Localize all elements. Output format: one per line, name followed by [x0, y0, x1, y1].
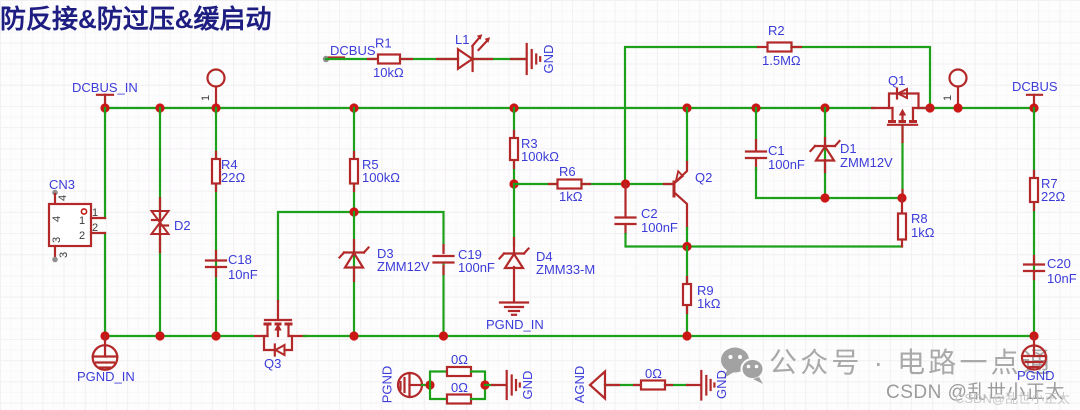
resistor R6 [558, 164, 583, 204]
svg-text:Q2: Q2 [695, 170, 712, 185]
node AGND (triangle symbol) [572, 366, 605, 404]
ground PGND (right circle symbol) [1017, 336, 1055, 383]
wire R3 column [513, 108, 515, 184]
svg-text:1kΩ: 1kΩ [911, 225, 935, 240]
transistor Q3 (NMOS on bottom bus) [251, 301, 306, 371]
svg-text:C18: C18 [228, 252, 252, 267]
wire C1 bottom row y=198 [756, 168, 902, 198]
resistor R3 [510, 136, 559, 164]
svg-text:10nF: 10nF [1047, 271, 1077, 286]
svg-text:AGND: AGND [572, 366, 587, 404]
svg-text:PGND_IN: PGND_IN [77, 369, 135, 384]
capacitor C20 [1024, 256, 1077, 286]
node R3/R6/D4 [509, 179, 518, 188]
svg-text:Q3: Q3 [264, 356, 281, 371]
svg-text:100nF: 100nF [641, 220, 678, 235]
node D1 bottom [820, 193, 829, 202]
node R6/C2/R2 junction [621, 179, 630, 188]
svg-text:DCBUS: DCBUS [330, 43, 376, 58]
capacitor C2 [616, 184, 678, 235]
wire R6 to Q2 base [582, 183, 673, 185]
capacitor C18 [206, 252, 258, 282]
LED L1 [455, 32, 490, 71]
pin 1 circle (right) [942, 70, 967, 109]
resistor 0R top branch [430, 352, 485, 385]
ground GND (bottom mid-left rotated) [507, 371, 535, 400]
svg-text:DCBUS_IN: DCBUS_IN [72, 80, 138, 95]
wire R2 branch left [625, 47, 768, 184]
resistor R1 [373, 36, 404, 81]
svg-text:DCBUS: DCBUS [1012, 79, 1058, 94]
wire D3 column [353, 212, 355, 336]
svg-text:Q1: Q1 [888, 73, 905, 88]
resistor R5 [350, 157, 400, 185]
svg-text:1: 1 [200, 95, 212, 101]
svg-text:100kΩ: 100kΩ [521, 149, 559, 164]
svg-text:ZMM12V: ZMM12V [840, 155, 893, 170]
svg-text:GND: GND [541, 45, 556, 74]
svg-text:4: 4 [57, 195, 69, 201]
wire R1 to L1 [400, 58, 458, 60]
wire DCBUS to R1 [326, 58, 378, 60]
capacitor C1 [746, 108, 805, 172]
capacitor C19 [434, 245, 495, 336]
ground PGND_IN (mid earth symbol) [486, 303, 544, 333]
resistor 0R (AGND) [641, 366, 665, 390]
svg-text:ZMM12V: ZMM12V [377, 259, 430, 274]
resistor R9 [683, 247, 721, 337]
ground PGND_IN (left circle symbol) [77, 336, 135, 384]
node DCBUS (top LED branch) [323, 43, 376, 62]
junction dots on main bus [100, 103, 1038, 112]
svg-text:R8: R8 [911, 211, 928, 226]
svg-text:100nF: 100nF [768, 157, 805, 172]
svg-text:2: 2 [92, 222, 98, 234]
resistor R7 [1030, 176, 1065, 204]
svg-text:GND: GND [520, 371, 535, 400]
transistor Q1 (PMOS on main bus) [872, 73, 930, 125]
resistor R4 [212, 157, 245, 185]
svg-text:PGND: PGND [1017, 368, 1055, 383]
svg-text:1: 1 [79, 215, 85, 227]
svg-text:R1: R1 [375, 36, 392, 51]
node left junction [425, 380, 434, 389]
wire main DCBUS_IN bus [105, 107, 1034, 109]
node right junction [480, 380, 489, 389]
wire node to R6 [514, 183, 558, 185]
svg-text:3: 3 [51, 237, 63, 243]
svg-text:防反接&防过压&缓启动: 防反接&防过压&缓启动 [0, 4, 272, 34]
svg-text:0Ω: 0Ω [645, 366, 662, 381]
wire 0R to GND [665, 384, 701, 386]
svg-text:22Ω: 22Ω [1041, 189, 1065, 204]
svg-text:C20: C20 [1047, 256, 1071, 271]
svg-text:GND: GND [714, 370, 729, 399]
svg-text:0Ω: 0Ω [451, 380, 468, 395]
node R5/D3 junction [349, 207, 358, 216]
resistor R2 [762, 23, 801, 68]
junction dots bottom bus [100, 331, 1038, 340]
svg-text:100nF: 100nF [458, 260, 495, 275]
svg-text:1kΩ: 1kΩ [697, 296, 721, 311]
watermark wechat icon [721, 348, 764, 385]
svg-text:ZMM33-M: ZMM33-M [536, 262, 595, 277]
wire C2 bottom row y=246.5 [626, 234, 903, 247]
transistor Q2 (PNP) [674, 108, 712, 247]
diode D1 zener [811, 141, 894, 170]
svg-text:1: 1 [942, 95, 954, 101]
wire R2 branch right [792, 47, 931, 108]
svg-text:22Ω: 22Ω [221, 170, 245, 185]
wire R7/C20 column [1033, 108, 1035, 336]
diode D3 zener [340, 246, 431, 274]
svg-text:1kΩ: 1kΩ [559, 189, 583, 204]
connector CN3 [49, 177, 105, 262]
title [0, 4, 272, 34]
ground GND (bottom mid-right rotated) [701, 370, 729, 399]
wire gate row y=212 [278, 212, 444, 301]
svg-text:C1: C1 [768, 143, 785, 158]
svg-text:PGND: PGND [380, 366, 395, 404]
resistor 0R bottom branch [430, 380, 485, 404]
pin 1 circle (left) [200, 70, 225, 109]
wire D1 column [824, 108, 826, 198]
wire L1 to GND [473, 58, 526, 60]
svg-text:R6: R6 [559, 164, 576, 179]
node DCBUS_IN label [72, 80, 138, 108]
svg-text:10kΩ: 10kΩ [373, 65, 404, 80]
ground GND (top, rotated) [527, 44, 556, 74]
diode D4 zener [500, 249, 596, 278]
svg-text:CN3: CN3 [49, 177, 75, 192]
node Q1 gate / R8 [897, 193, 906, 202]
svg-text:3: 3 [58, 252, 70, 258]
resistor R8 [898, 198, 935, 247]
wire AGND to 0R [605, 384, 641, 386]
svg-text:C2: C2 [641, 206, 658, 221]
svg-text:D2: D2 [174, 218, 191, 233]
node PGND (bottom middle circle symbol) [380, 366, 431, 404]
wire left column x=105 [104, 108, 106, 336]
wire D4 column [513, 184, 515, 302]
node DCBUS label (right) [1012, 79, 1058, 108]
wire bottom PGND_IN bus [105, 335, 1034, 337]
svg-text:PGND_IN: PGND_IN [486, 317, 544, 332]
svg-text:1: 1 [92, 207, 98, 219]
svg-text:R2: R2 [768, 23, 785, 38]
svg-text:2: 2 [79, 230, 85, 242]
wire D2 column [159, 108, 161, 336]
svg-text:1.5MΩ: 1.5MΩ [762, 53, 801, 68]
wire R5 column [353, 108, 355, 212]
svg-text:0Ω: 0Ω [451, 352, 468, 367]
svg-text:4: 4 [51, 216, 63, 222]
svg-text:10nF: 10nF [228, 267, 258, 282]
wire to GND [485, 384, 506, 386]
wire R4/C18 column [215, 108, 217, 336]
diode D2 (TVS) [152, 211, 191, 234]
node Q2 collector / R9 / C2 [682, 242, 691, 251]
svg-text:D1: D1 [840, 141, 857, 156]
svg-text:L1: L1 [455, 32, 469, 47]
svg-text:100kΩ: 100kΩ [362, 170, 400, 185]
wire Q1 gate down [901, 125, 903, 198]
